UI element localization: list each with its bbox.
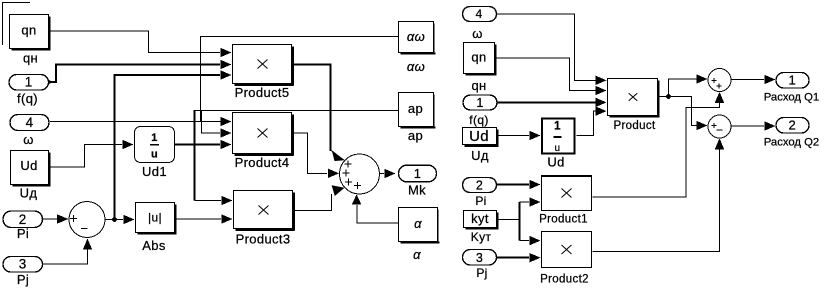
- Product block (right): [608, 79, 660, 118]
- wire f(q) hook to Product5 in2 (bold): [50, 65, 220, 83]
- kyt branch to Product2 in1: [520, 240, 530, 242]
- inport oval 2 Pi (left): [3, 211, 43, 228]
- svg-text:u: u: [555, 143, 561, 154]
- wire 1/u out up to Product in4: [577, 111, 597, 135]
- svg-text:Ud1: Ud1: [142, 164, 167, 179]
- wire branch omega up to alpha-omega block: [201, 37, 399, 122]
- svg-text:αω: αω: [407, 29, 425, 44]
- Product5 block: [233, 45, 295, 87]
- Product2 block: [542, 232, 592, 268]
- svg-text:Pj: Pj: [17, 272, 29, 287]
- Product4 block: [233, 113, 295, 157]
- svg-text:Uд: Uд: [471, 148, 489, 163]
- block qn (left): [10, 15, 51, 51]
- svg-text:1: 1: [151, 132, 157, 144]
- wire Product out with junction: [660, 96, 669, 98]
- wire Product1 out up to S3 bottom: [593, 103, 720, 198]
- svg-text:Product5: Product5: [235, 85, 290, 100]
- svg-text:ω: ω: [23, 132, 34, 147]
- inport oval 1 f(q) (left): [9, 75, 49, 91]
- wire kyt out to split: [499, 219, 520, 221]
- wire oval3 right to Product2 in2 (bold): [497, 257, 530, 259]
- svg-text:Pj: Pj: [476, 266, 487, 280]
- wire alpha block to S2 bottom: [357, 205, 398, 223]
- svg-text:Product: Product: [613, 120, 656, 132]
- wire omega to Product4 in1: [50, 121, 231, 123]
- block kyt: [464, 211, 499, 230]
- ap block: [399, 93, 436, 129]
- svg-text:qн: qн: [471, 78, 486, 93]
- sum S1 circle (left, Pi-Pj): [69, 202, 105, 238]
- svg-text:2: 2: [789, 118, 797, 133]
- wire oval2 to S1: [42, 218, 58, 220]
- S2 output arrow to Mk: [380, 173, 384, 175]
- wire Ud1 out to Product4 in3 (bold): [175, 144, 220, 146]
- arrows into Product: [596, 76, 607, 85]
- svg-text:3: 3: [476, 251, 483, 265]
- svg-text:2: 2: [476, 179, 483, 193]
- svg-text:1: 1: [414, 166, 422, 181]
- wire S4 out to oval Q2: [731, 125, 764, 127]
- wire Product4 out to S2 left input: [294, 133, 327, 173]
- inport oval 3 Pj (right): [463, 250, 497, 266]
- Product1 block: [541, 175, 592, 211]
- svg-text:f(q): f(q): [469, 113, 488, 127]
- wire f(q) right to Product in3 (bold): [497, 101, 597, 103]
- svg-text:Ud: Ud: [547, 155, 564, 170]
- svg-text:1: 1: [476, 96, 483, 110]
- wire branch up to Product5 in3 (bold): [115, 75, 221, 220]
- wire qn right to Product in1: [497, 58, 597, 91]
- wire omega oval4 right to Product in2: [497, 14, 597, 80]
- arrows into Product2: [530, 236, 541, 245]
- kyt branch to Product1 in2: [520, 201, 530, 203]
- svg-text:Pi: Pi: [475, 194, 486, 208]
- svg-text:4: 4: [26, 115, 34, 130]
- arrows into Product1: [530, 180, 541, 189]
- svg-text:qn: qn: [471, 50, 486, 65]
- arrows into Product5: [221, 48, 232, 57]
- svg-text:kyt: kyt: [471, 211, 489, 226]
- wire branch vertical at x194.5 (bold): [194, 110, 196, 201]
- wire S1 output to Abs with junction: [105, 219, 123, 221]
- wire branch up to S3: [669, 79, 697, 97]
- wire branch down to Product3 in1: [195, 200, 222, 202]
- svg-text:Uд: Uд: [20, 186, 38, 201]
- svg-text:qн: qн: [23, 51, 38, 66]
- svg-text:Расход Q1: Расход Q1: [764, 91, 819, 103]
- wire branch down to S4: [669, 97, 697, 126]
- Mk outport oval: [399, 165, 437, 182]
- svg-text:|u|: |u|: [148, 211, 162, 225]
- svg-text:1: 1: [789, 73, 797, 88]
- arrows into Product3: [222, 196, 233, 205]
- wire Product5 out down to S2 (bold): [294, 65, 331, 152]
- frame corner top-left: [3, 3, 31, 46]
- svg-text:Abs: Abs: [142, 238, 166, 253]
- inport oval 1 f(q) (right): [463, 95, 497, 110]
- svg-text:Mk: Mk: [408, 183, 426, 198]
- wire qn to Product5 in1: [51, 31, 221, 53]
- Product3 block: [234, 191, 296, 232]
- outport oval 2 Q2: [776, 118, 809, 134]
- kyt split vertical (bold): [519, 202, 521, 241]
- svg-text:qn: qn: [21, 23, 36, 38]
- wire branch to ap block: [195, 110, 399, 112]
- big sum S2 circle: [340, 154, 380, 194]
- wire oval3 to S1 bottom: [42, 249, 88, 264]
- wire S3 out to oval Q1: [731, 79, 764, 81]
- wire sub-branch to Product4 in2: [202, 111, 221, 134]
- svg-text:Product3: Product3: [236, 232, 291, 247]
- svg-text:ap: ap: [408, 101, 423, 116]
- svg-text:Product2: Product2: [540, 274, 589, 286]
- wire Product3 out up to S2 lower-left: [295, 194, 332, 211]
- wire Ud flat to 1/u: [499, 135, 530, 137]
- svg-text:u: u: [151, 149, 158, 161]
- svg-text:α: α: [414, 216, 422, 231]
- inport oval 4 omega (right): [463, 7, 497, 22]
- block qn (right): [464, 43, 497, 76]
- svg-text:4: 4: [475, 7, 482, 21]
- inport oval 3 Pj (left): [3, 257, 43, 273]
- alpha-omega block: [399, 22, 436, 55]
- wire Ud to Ud1: [51, 145, 123, 168]
- block Ud (left): [11, 151, 51, 187]
- outport oval 1 Q1: [776, 73, 809, 89]
- sum S3 circle (right top): [708, 69, 731, 92]
- svg-text:Pi: Pi: [17, 226, 29, 241]
- svg-text:Ud: Ud: [20, 158, 37, 173]
- block 1/u Ud (right): [542, 119, 575, 154]
- block Ud flat (right): [463, 128, 499, 148]
- junction dot S1 out: [112, 217, 117, 222]
- Abs block: [136, 203, 177, 235]
- diagonal arrow into S2 lower-left: [332, 185, 345, 196]
- svg-text:Расход Q2: Расход Q2: [764, 136, 819, 148]
- wire Abs out to Product3 in2: [176, 218, 221, 220]
- svg-text:Product4: Product4: [235, 155, 290, 170]
- svg-text:1: 1: [25, 75, 33, 90]
- arrows into Product4: [221, 117, 232, 126]
- svg-text:α: α: [413, 247, 421, 262]
- svg-text:1: 1: [554, 121, 561, 133]
- sum S4 circle (right bottom): [708, 115, 731, 138]
- wire oval2 right to Product1 in1 (bold): [497, 184, 530, 186]
- svg-text:αω: αω: [407, 59, 425, 74]
- inport oval 2 Pi (right): [463, 178, 497, 193]
- svg-text:ap: ap: [408, 128, 423, 143]
- svg-text:ω: ω: [472, 26, 483, 41]
- diagonal arrow into S2 top-left: [332, 151, 345, 162]
- inport oval 4 omega (left): [10, 115, 49, 131]
- svg-text:Kут: Kут: [471, 230, 492, 244]
- wire Product2 out up to S4 bottom: [593, 149, 720, 251]
- svg-text:3: 3: [19, 257, 27, 272]
- svg-text:f(q): f(q): [17, 91, 38, 106]
- svg-text:2: 2: [19, 212, 27, 227]
- alpha block: [399, 208, 440, 244]
- svg-text:Ud: Ud: [469, 128, 489, 145]
- svg-text:Product1: Product1: [539, 214, 588, 226]
- Ud1 block (1/u rounded): [135, 127, 175, 163]
